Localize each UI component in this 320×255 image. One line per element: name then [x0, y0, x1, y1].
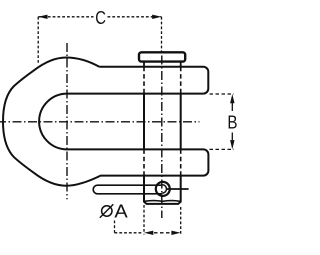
svg-text:C: C — [95, 7, 106, 28]
svg-text:A: A — [114, 202, 127, 222]
svg-text:B: B — [227, 112, 237, 133]
